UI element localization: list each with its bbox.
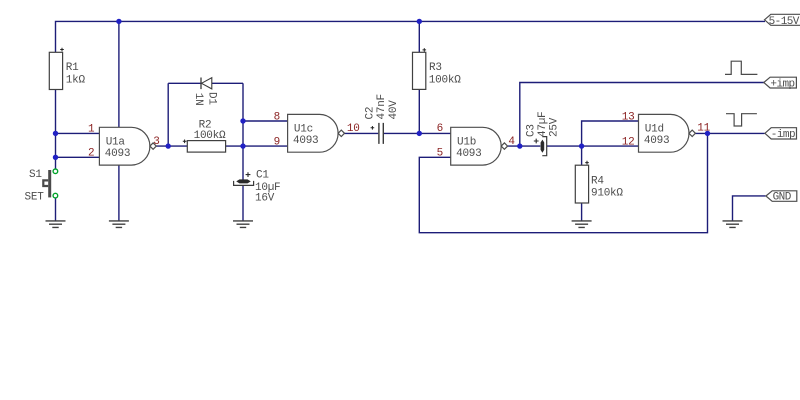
svg-text:R1: R1 [66, 62, 79, 74]
wire: 5-15V top supply rail [56, 21, 766, 52]
svg-text:1: 1 [88, 124, 95, 136]
op-amp U1b (NAND gate 4093) [451, 127, 508, 165]
wire: U1b output pin 4 to C3 [508, 145, 541, 147]
svg-text:13: 13 [622, 111, 635, 123]
wire: C3 right to R4 node and pin 12 [547, 145, 639, 147]
switch S1 SET pushbutton [25, 169, 58, 203]
ground below U1a [109, 221, 129, 228]
svg-text:C3: C3 [526, 124, 538, 137]
wire: U1d output pin 11 to -imp [695, 132, 764, 134]
op-amp U1a (NAND gate 4093) [99, 127, 156, 165]
capacitor C3 47uF 25V [526, 112, 561, 156]
junction pin 8 node [240, 118, 245, 123]
svg-text:6: 6 [437, 123, 443, 135]
ground below GND tag [723, 221, 743, 228]
svg-text:47µF: 47µF [537, 112, 549, 137]
wire: R3 top to rail [418, 21, 420, 52]
svg-text:1N: 1N [192, 93, 204, 106]
svg-text:9: 9 [274, 136, 280, 148]
svg-text:10: 10 [347, 123, 360, 135]
wire: D1 horizontal run [168, 82, 243, 84]
junction pin 1 node [53, 131, 58, 136]
svg-text:910kΩ: 910kΩ [591, 188, 623, 200]
svg-text:-imp: -imp [771, 129, 795, 141]
ground below R4 [572, 221, 592, 228]
wire: pin 13 tie to pin 12 node [582, 121, 639, 146]
junction pin 11 node [705, 131, 710, 136]
svg-text:100kΩ: 100kΩ [429, 75, 461, 87]
wire: R4 top from node [581, 146, 583, 165]
svg-text:SET: SET [25, 191, 45, 203]
op-amp U1c (NAND gate 4093) [288, 114, 345, 152]
net tag -imp [765, 128, 797, 142]
junction on rail at R3 [417, 19, 422, 24]
wire: GND tag to ground symbol [733, 196, 766, 221]
svg-text:U1a: U1a [106, 136, 126, 148]
svg-text:25V: 25V [549, 117, 561, 137]
wire: U1a Vdd stub from rail [118, 21, 120, 127]
svg-text:U1d: U1d [645, 124, 664, 136]
resistor R3 [413, 48, 462, 89]
junction pin 6 node [417, 131, 422, 136]
svg-text:U1b: U1b [457, 136, 476, 148]
svg-text:5: 5 [437, 148, 443, 160]
junction pin 9 node [240, 143, 245, 148]
op-amp U1d (NAND gate 4093) [639, 114, 696, 152]
net tag GND [766, 191, 797, 204]
wire: U1c output pin 10 to C2 [345, 132, 379, 134]
junction pin 2 node [53, 155, 58, 160]
resistor R4 [575, 161, 623, 203]
svg-text:U1c: U1c [294, 124, 313, 136]
resistor R2 [183, 119, 226, 152]
wire: U1b pin 5 feedback to U1d output [419, 133, 707, 232]
svg-text:S1: S1 [29, 169, 42, 181]
svg-text:8: 8 [274, 111, 280, 123]
junction pin 4 node [517, 143, 522, 148]
wire: pin 8 input U1c [243, 120, 288, 122]
svg-text:3: 3 [153, 136, 159, 148]
svg-text:4: 4 [508, 136, 515, 148]
svg-text:12: 12 [622, 136, 635, 148]
svg-text:C1: C1 [256, 169, 269, 181]
wire: R2 right to node [226, 145, 288, 147]
svg-text:2: 2 [88, 148, 94, 160]
capacitor C1 10uF 16V [234, 169, 281, 204]
svg-text:40V: 40V [388, 100, 400, 120]
positive pulse waveform glyph [725, 61, 757, 74]
junction pin 12 node at R4 [579, 143, 584, 148]
svg-text:4093: 4093 [644, 135, 669, 147]
svg-text:GND: GND [773, 192, 792, 204]
net tag +imp [764, 77, 797, 90]
wire: R3 bottom to pin-6 node [418, 89, 420, 133]
svg-text:4093: 4093 [456, 148, 481, 160]
svg-text:4093: 4093 [105, 148, 130, 160]
wire: C2 right to R3 node and pin 6 [384, 132, 451, 134]
wire: +imp branch from pin-4 node [520, 83, 764, 147]
svg-text:100kΩ: 100kΩ [194, 130, 226, 142]
svg-text:1kΩ: 1kΩ [66, 75, 86, 87]
wire: S1 bottom to ground [55, 198, 57, 221]
wire: node 3 vertical to D1 [167, 83, 169, 146]
svg-text:47nF: 47nF [376, 94, 388, 119]
svg-text:4093: 4093 [293, 135, 318, 147]
net tag 5-15V [765, 14, 800, 28]
negative pulse waveform glyph [726, 114, 757, 126]
svg-text:16V: 16V [255, 193, 275, 205]
svg-text:R4: R4 [591, 176, 604, 188]
wire: D1 right down through pins 8,9 to C1 [242, 83, 244, 180]
svg-text:R3: R3 [429, 62, 442, 74]
ground below S1 [46, 221, 66, 228]
junction on rail at U1a Vdd [116, 19, 121, 24]
svg-text:+imp: +imp [770, 78, 794, 90]
capacitor C2 47nF 40V [365, 94, 400, 144]
wire: pin 1 input U1a [56, 132, 100, 134]
wire: node 3 U1a output to R2 and D1 [156, 145, 187, 147]
wire: R1 bottom to S1 / pins 1-2 vertical [55, 90, 57, 169]
svg-text:D1: D1 [206, 92, 218, 105]
svg-text:C2: C2 [365, 107, 377, 120]
ground below C1 [233, 221, 253, 228]
diode D1 [192, 78, 218, 106]
wire: pin 2 input U1a [56, 156, 100, 158]
wire: R4 bottom to ground [581, 203, 583, 221]
junction node 3 [166, 143, 171, 148]
resistor R1 [49, 48, 85, 90]
wire: C1 bottom to ground [242, 186, 244, 221]
svg-text:5-15V: 5-15V [769, 16, 800, 28]
wire: U1a ground stub [118, 165, 120, 221]
